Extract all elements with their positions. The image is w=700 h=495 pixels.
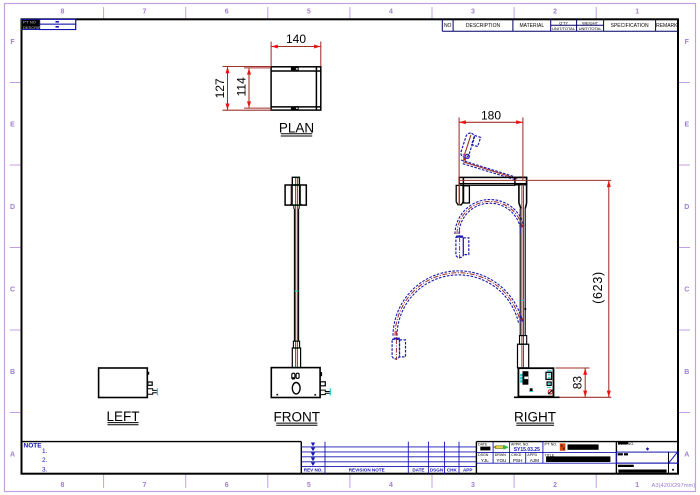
front base wires [320,390,330,395]
front base screw dots [276,394,278,396]
svg-text:DSGN: DSGN [478,453,489,457]
stowed head centerline [459,185,461,206]
upper arc tail along pole [519,227,521,235]
svg-text:E: E [10,122,15,129]
dimension 180 [459,109,523,206]
right pole red core [522,185,524,368]
svg-text:UNIT/TOTAL: UNIT/TOTAL [579,26,603,31]
svg-text:C: C [10,287,15,294]
svg-text:NOTE: NOTE [24,443,43,450]
svg-text:DATE: DATE [412,468,424,473]
svg-text:B: B [10,369,15,376]
company logo [560,443,566,450]
svg-text:FRONT: FRONT [274,410,321,425]
front head top cap [292,177,299,185]
svg-text:Q'TY: Q'TY [559,20,568,25]
zone tick marks left [10,83,21,413]
front neck stub [294,205,299,209]
pencil icon [494,445,509,450]
svg-text:1.: 1. [42,448,48,455]
upper arc junction dot [521,225,524,228]
svg-text:D: D [10,204,15,211]
svg-text:SY15.03.25: SY15.03.25 [514,447,540,453]
right bracket below head [519,185,527,209]
svg-text:5: 5 [307,482,311,489]
svg-text:NO: NO [444,23,452,29]
svg-text:WEIGHT: WEIGHT [582,20,599,25]
lower arc junction dot [521,318,524,321]
svg-text:F: F [685,39,690,46]
svg-text:C: C [684,287,689,294]
right base ground line [514,396,560,398]
svg-text:AJM: AJM [530,458,539,463]
front ferrule step1 [293,341,299,348]
front base box [271,368,320,398]
right base cyan stack [520,374,522,383]
svg-text:RIGHT: RIGHT [514,410,556,425]
svg-text:LEFT: LEFT [106,409,139,424]
lower phantom head cap [394,338,400,340]
svg-text:114: 114 [234,77,248,96]
svg-text:DATE: DATE [478,442,488,446]
phantom arm centerline [463,162,517,179]
right base screw dot [530,388,533,391]
dimension (623) [527,180,612,397]
right base black block [523,371,529,385]
svg-text:83: 83 [571,376,585,390]
svg-text:6: 6 [225,482,229,489]
svg-text:3: 3 [471,9,475,16]
svg-text:2: 2 [553,9,557,16]
svg-text:DRWN: DRWN [495,453,507,457]
dimension 83 [556,368,612,397]
svg-text:DESCRIPTION: DESCRIPTION [466,23,501,29]
right ferrule step [520,336,527,345]
right base small port [547,382,551,385]
svg-text:A: A [684,452,689,459]
svg-text:7: 7 [143,9,147,16]
front head inner channels [291,185,300,204]
right base connector block [546,372,552,379]
svg-text:DESCRIP: DESCRIP [23,25,41,30]
front head body [285,185,306,205]
right ferrule lower [518,344,529,368]
right pole cyan mark [521,299,524,301]
front base connector [320,382,325,386]
upper gooseneck arc [455,199,524,234]
svg-text:YJL: YJL [481,458,489,463]
phantom head side plate [472,135,481,146]
parts list header table (top right) [442,19,678,31]
svg-text:APPR. NO.: APPR. NO. [511,442,529,446]
svg-text:CHKD: CHKD [511,453,522,457]
upper phantom head side plate [463,238,469,255]
left view connector [148,382,152,385]
RIGHT label [514,410,556,426]
right base cyan bar [547,370,552,371]
front base oval hole [292,383,300,394]
drawing number diamond [646,447,649,450]
right pole [520,209,525,336]
plan outline [271,67,321,110]
svg-text:E: E [684,122,689,129]
svg-text:A3(420X297mm): A3(420X297mm) [652,483,696,489]
lower phantom head centerline [395,331,397,360]
svg-text:A: A [10,452,15,459]
revision header labels [304,468,473,473]
svg-text:2.: 2. [42,457,48,464]
svg-text:8: 8 [61,9,65,16]
front pole [294,209,298,341]
upper phantom head cap [456,236,463,238]
svg-text:P'T NO.: P'T NO. [545,442,558,446]
right pole clamp knob [524,308,526,310]
svg-text:B: B [684,369,689,376]
scale cell with slash [668,452,670,463]
phantom pivot circle [465,154,469,158]
plan bottom clamp [291,107,298,110]
svg-text:REV NO.: REV NO. [304,468,323,473]
dimension 114 [234,68,271,108]
phantom head (tilted) [460,132,476,158]
right base power socket [548,390,552,394]
right head red centerline [460,179,527,181]
upper phantom head centerline [459,229,461,259]
right head assembly [459,177,526,185]
svg-text:7: 7 [143,482,147,489]
zone tick marks bottom [104,474,597,488]
svg-text:127: 127 [213,78,227,98]
left view top tab [147,372,149,375]
stowed lamp head (hangs below left end of arm) [456,185,469,204]
svg-text:APPD: APPD [527,453,537,457]
right base box [518,368,553,396]
phantom arm (tilted position) [461,160,517,180]
front head red centerline [296,178,298,209]
svg-text:YOU: YOU [496,458,506,463]
svg-text:PSH: PSH [513,458,522,463]
svg-text:CHK: CHK [447,468,458,473]
left view wires [147,389,157,395]
LEFT label [106,409,139,425]
PLAN label [279,121,314,136]
revision triangles [311,443,315,467]
svg-text:MATERIAL: MATERIAL [519,23,544,29]
svg-text:REVISION NOTE: REVISION NOTE [349,468,385,473]
zone tick marks right [678,83,690,413]
svg-text:8: 8 [61,482,65,489]
zone numbers top [61,9,640,16]
svg-text:F: F [10,39,15,46]
svg-text:6: 6 [225,9,229,16]
svg-text:180: 180 [481,109,501,123]
front base cyan centerline [329,388,331,395]
lower gooseneck arc [393,271,522,336]
svg-text:(623): (623) [591,271,605,304]
svg-text:4: 4 [389,9,393,16]
row2 small cells [478,453,537,457]
phantom pivot cross [463,154,466,157]
svg-text:140: 140 [286,32,306,46]
svg-text:UNIT/TOTAL: UNIT/TOTAL [552,26,576,31]
front head feet [290,204,293,205]
svg-text:REMARK: REMARK [656,23,678,29]
zone letters right [684,39,689,459]
svg-text:3.: 3. [42,467,48,474]
svg-text:APP: APP [463,468,472,473]
FRONT label [274,410,321,426]
svg-text:1: 1 [635,482,639,489]
zone numbers bottom [61,482,640,489]
front pole cyan mark [295,290,299,292]
lower phantom head body [392,339,399,359]
upper phantom head body [456,237,463,257]
zone tick marks top [104,7,597,19]
svg-text:SPECIFICATION: SPECIFICATION [611,23,649,29]
left view cyan centerline [156,388,158,395]
lower arc tail along pole [519,315,521,324]
svg-text:2: 2 [553,482,557,489]
front base cable clamp [292,373,299,379]
dimension 140 [271,32,321,66]
plan top clamp [291,67,298,70]
sheet row [616,462,678,464]
svg-text:3: 3 [471,482,475,489]
lower phantom head side plate [400,340,406,357]
svg-text:5: 5 [307,9,311,16]
front pole red core [296,209,298,368]
svg-text:4: 4 [389,482,393,489]
svg-text:DSGN: DSGN [430,468,444,473]
phantom pivot joint mark [463,158,466,161]
dimension 127 [213,67,272,111]
left view body [99,368,148,398]
svg-text:D: D [684,204,689,211]
svg-text:1: 1 [635,9,639,16]
zone letters left [10,39,15,459]
front base right tab [320,372,322,376]
front ferrule step2 [292,348,300,368]
top-left part-no table [22,19,76,30]
